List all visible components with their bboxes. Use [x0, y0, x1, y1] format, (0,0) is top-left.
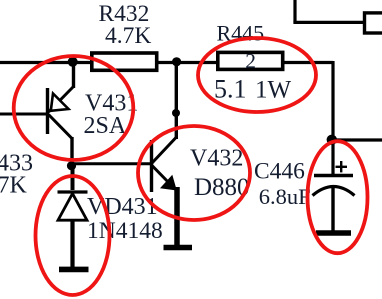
svg-text:5.1: 5.1: [214, 75, 247, 104]
svg-text:1N4148: 1N4148: [87, 218, 163, 244]
svg-text:R445: R445: [217, 21, 265, 46]
svg-text:2: 2: [245, 49, 256, 73]
svg-text:6.8uF: 6.8uF: [259, 184, 311, 209]
svg-text:7K: 7K: [0, 173, 28, 199]
svg-text:2SA: 2SA: [84, 113, 127, 139]
svg-text:1W: 1W: [255, 77, 292, 104]
svg-text:4.7K: 4.7K: [105, 23, 151, 49]
svg-text:V432: V432: [190, 146, 243, 172]
svg-text:C446: C446: [254, 159, 305, 185]
